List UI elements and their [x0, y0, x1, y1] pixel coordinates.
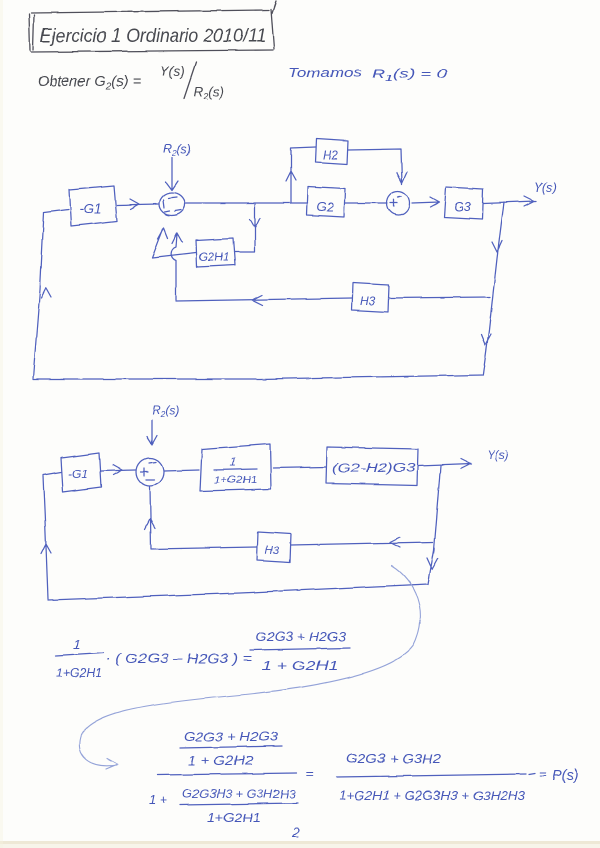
block (G2-H2)G3 [326, 447, 418, 485]
eq1 left fraction 1/(1+G2H1) [56, 637, 104, 680]
eq2 main bar [157, 773, 296, 775]
wire H3 to left with arrow [176, 295, 352, 305]
label R2(s) input 2 [152, 403, 179, 419]
svg-text:Obtener G2(s) =: Obtener G2(s) = [38, 74, 141, 93]
svg-text:-G1: -G1 [68, 467, 88, 481]
wire tap to H3 [389, 297, 490, 298]
block H2 [315, 139, 348, 164]
wire output branch down 2 [427, 466, 441, 584]
wire outer loop bottom [33, 375, 483, 379]
svg-text:Tomamos: Tomamos [288, 65, 363, 80]
svg-text:Y(s): Y(s) [160, 64, 185, 79]
svg-text:=: = [306, 766, 314, 781]
svg-text:H3: H3 [360, 294, 376, 308]
wire R2 down into S3 [147, 420, 157, 445]
wire S1 to G2 [185, 202, 308, 204]
svg-text:1 + G2H2: 1 + G2H2 [188, 754, 253, 768]
summing junction S2 [387, 191, 410, 215]
title text Ejercicio 1 Ordinario 2010/11 [40, 26, 266, 47]
wire branch up to H2 [286, 147, 315, 203]
svg-text:Ejercicio 1 Ordinario 2010/1: Ejercicio 1 Ordinario 2010/11 [40, 26, 266, 47]
label Y(s) output 2 [487, 450, 508, 462]
wire feedback into -G1 [44, 209, 68, 212]
svg-text:Y(s): Y(s) [534, 181, 557, 195]
block 1/(1+G2H1) [200, 444, 271, 491]
eq2 result = P(s) [529, 766, 579, 784]
wire H3 feedback up into S1 with hop [171, 233, 182, 300]
svg-text:1+G2H1: 1+G2H1 [56, 668, 102, 680]
wire H2 to S2 with down arrow [348, 149, 407, 184]
wire -G1 to S1 with arrow [117, 199, 158, 209]
eq1 middle (G2G3 - H2G3) = [106, 651, 252, 666]
svg-text:2: 2 [291, 824, 300, 840]
wire outer loop left vertical with arrow [33, 212, 51, 378]
wire output branch down (feedback taps) [481, 202, 504, 374]
svg-text:1 +: 1 + [149, 792, 168, 807]
svg-text:1 + G2H1: 1 + G2H1 [262, 659, 338, 673]
annotation swoosh curve [79, 566, 420, 769]
svg-text:G2G3 + H2G3: G2G3 + H2G3 [184, 730, 278, 744]
wire H3 to S3 with arrow [145, 487, 257, 549]
block H3 (2) [257, 532, 291, 562]
summing junction S3 [137, 458, 164, 486]
svg-text:1: 1 [230, 457, 236, 469]
block G2H1 [196, 238, 235, 267]
note Tomamos R1(s) = 0 [288, 65, 448, 83]
svg-text:R2(s): R2(s) [194, 84, 225, 101]
summing junction S1 [159, 193, 185, 216]
svg-text:G2: G2 [317, 200, 334, 214]
wire G2 to S2 [345, 202, 387, 204]
eq2 denominator 1 + fraction [149, 787, 298, 825]
block G3 [444, 187, 483, 219]
svg-text:G2G3H3 + G3H2H3: G2G3H3 + G3H2H3 [182, 787, 296, 801]
eq2 right fraction [337, 752, 526, 803]
svg-text:1: 1 [73, 637, 80, 652]
wire G3 to output Y(s) [483, 196, 536, 206]
svg-text:G3: G3 [454, 200, 471, 214]
block -G1 [69, 186, 117, 226]
svg-text:1+G2H1: 1+G2H1 [207, 811, 261, 825]
svg-text:R2(s): R2(s) [152, 403, 179, 419]
wire to output Y(s) 2 [418, 459, 472, 469]
svg-text:G2H1: G2H1 [199, 252, 229, 264]
svg-text:1+G2H1: 1+G2H1 [214, 474, 257, 486]
svg-text:1+G2H1 + G2G3H3 + G3H2H3: 1+G2H1 + G2G3H3 + G3H2H3 [339, 789, 525, 803]
svg-text:Y(s): Y(s) [487, 450, 508, 462]
wire S3 to block 1/(1+G2H1) [164, 470, 199, 471]
wire feedback into -G1 (2) [43, 472, 61, 475]
wire outer loop bottom 2 [48, 584, 428, 600]
svg-text:=: = [539, 766, 547, 781]
svg-text:R1(s) = 0: R1(s) = 0 [372, 66, 448, 83]
svg-text:-G1: -G1 [79, 201, 102, 216]
svg-text:H2: H2 [323, 148, 339, 162]
eq2 inner numerator fraction [180, 730, 282, 768]
heading Obtener G2(s) = Y(s)/R2(s) [38, 62, 225, 101]
svg-text:G2G3 + H2G3: G2G3 + H2G3 [256, 630, 346, 644]
wire R2 down into summing junction S1 [166, 158, 178, 190]
svg-text:· ( G2G3 – H2G3 ) =: · ( G2G3 – H2G3 ) = [106, 651, 252, 666]
wire tap to H3 (2) [291, 537, 433, 547]
eq2 equals [306, 766, 314, 781]
block G2 [307, 187, 345, 217]
wire G2H1 to S1 diagonal with arrow [152, 228, 196, 258]
wire -G1 to S3 with arrow [101, 465, 136, 475]
svg-text:(G2-H2)G3: (G2-H2)G3 [332, 463, 416, 475]
svg-text:R2(s): R2(s) [163, 142, 191, 158]
block H3 [352, 283, 389, 312]
arrow S2 to G3 [412, 197, 439, 207]
label Y(s) output [534, 181, 557, 195]
svg-text:G2G3 + G3H2: G2G3 + G3H2 [346, 752, 441, 766]
wire to block (G2-H2)G3 [273, 467, 326, 468]
page number mark [291, 824, 300, 840]
svg-text:P(s): P(s) [552, 768, 579, 784]
label R2(s) input [163, 142, 191, 158]
eq1 right fraction [250, 630, 350, 673]
wire outer loop left vertical 2 [41, 476, 51, 599]
title box [29, 1, 276, 52]
svg-text:H3: H3 [265, 545, 280, 557]
block -G1 (2) [61, 453, 101, 492]
wire branch down to G2H1 [234, 204, 260, 252]
